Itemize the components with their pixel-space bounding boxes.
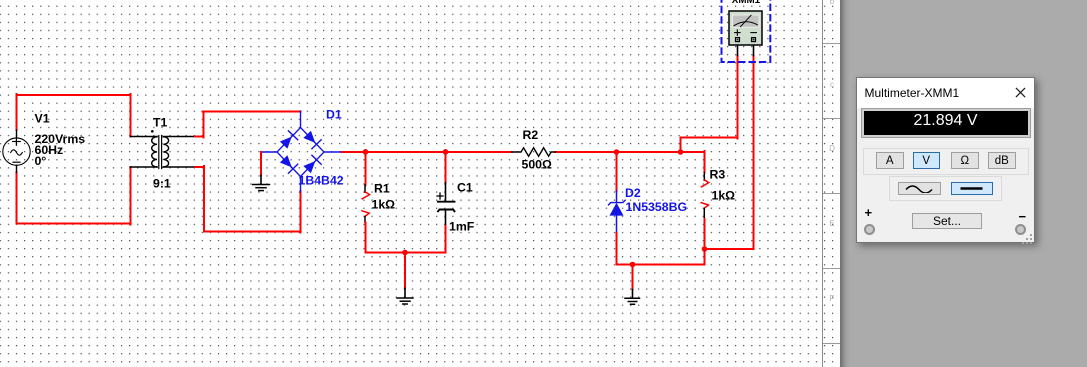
ground (bridge) bbox=[253, 176, 270, 191]
svg-text:V1: V1 bbox=[35, 112, 50, 126]
junction: ground tap (filter) bbox=[402, 250, 408, 256]
svg-text:500Ω: 500Ω bbox=[522, 158, 553, 172]
svg-text:1B4B42: 1B4B42 bbox=[299, 174, 344, 188]
wire: main output rail bbox=[342, 151, 705, 153]
svg-text:1kΩ: 1kΩ bbox=[712, 189, 736, 203]
svg-text:R2: R2 bbox=[523, 128, 539, 142]
svg-text:C1: C1 bbox=[457, 181, 473, 195]
svg-text:T1: T1 bbox=[153, 116, 168, 130]
Multimeter-XMM1 dialog window bbox=[856, 77, 1036, 243]
junction: D2 top bbox=[614, 149, 620, 155]
wire: T1 secondary top to bridge bbox=[195, 112, 301, 138]
transformer T1 bbox=[131, 130, 196, 169]
svg-text:1mF: 1mF bbox=[449, 220, 475, 234]
wire: V1 bottom loop to transformer bbox=[17, 167, 131, 225]
wire: zener ground stem bbox=[632, 265, 634, 290]
junction: R3 bottom / multimeter minus tap bbox=[702, 246, 708, 252]
svg-text:1N5358BG: 1N5358BG bbox=[626, 200, 688, 214]
junction: ground tap (zener) bbox=[630, 262, 636, 268]
value 220Vrms 60Hz 0deg bbox=[35, 132, 86, 168]
svg-text:9:1: 9:1 bbox=[153, 177, 171, 191]
wire: bridge left to ground bbox=[260, 152, 262, 176]
zener diode D2 bbox=[609, 191, 626, 233]
wire: multimeter plus bbox=[681, 56, 738, 153]
ground (filter) bbox=[397, 289, 413, 305]
junction: C1 top bbox=[443, 149, 449, 155]
svg-text:R3: R3 bbox=[710, 168, 726, 182]
junction: R1 top bbox=[363, 149, 369, 155]
resistor R2 bbox=[512, 148, 556, 156]
wire: T1 secondary bottom to bridge bbox=[195, 166, 301, 233]
voltage source V1 bbox=[3, 130, 30, 173]
wire: V1 top to transformer bbox=[17, 94, 131, 137]
ground (zener) bbox=[625, 290, 640, 305]
wire: D2 top bbox=[616, 152, 618, 191]
svg-text:0°: 0° bbox=[35, 154, 47, 168]
svg-text:1kΩ: 1kΩ bbox=[372, 198, 396, 212]
multimeter XMM1 instrument bbox=[729, 11, 762, 56]
svg-text:D1: D1 bbox=[326, 108, 342, 122]
svg-text:D2: D2 bbox=[625, 186, 641, 200]
svg-text:XMM1: XMM1 bbox=[732, 0, 761, 6]
wire: multimeter minus bbox=[705, 56, 754, 250]
wire: bottom rail R1-C1 bbox=[366, 252, 446, 254]
bridge rectifier D1 bbox=[261, 111, 342, 192]
capacitor C1 bbox=[437, 150, 455, 253]
wire: filter ground stem bbox=[404, 253, 406, 289]
selection box (dashed) around XMM1 bbox=[722, 0, 771, 62]
junction: multimeter plus tap bbox=[678, 149, 684, 155]
resistor R1 bbox=[362, 150, 370, 253]
svg-text:R1: R1 bbox=[374, 182, 390, 196]
wire: D2 bottom rail bbox=[617, 233, 705, 265]
resistor R3 bbox=[701, 151, 709, 265]
